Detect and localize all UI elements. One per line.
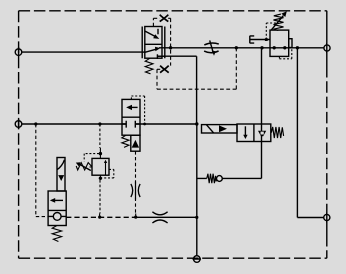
RV2 pilot dotted box (84, 154, 114, 178)
relief valve RV2 spring (76, 163, 91, 170)
compensator CP1 body (145, 27, 162, 59)
pilot line orifice branch (135, 151, 137, 213)
compensator top cell arrow (157, 29, 159, 35)
relief valve RV1 body (270, 30, 289, 56)
junction dots on relief line (235, 46, 238, 49)
valve V2 pilot box (131, 135, 140, 151)
relief valve RV2 adjust arrow (79, 164, 91, 171)
port circle P2 (left main) (15, 121, 22, 128)
orifice X1 (160, 15, 169, 22)
junction dot drain line (195, 216, 198, 219)
valve V4 spring (271, 127, 283, 138)
relief RV1 vent dotted (266, 23, 277, 40)
valve V2 body (middle 2/2) (122, 99, 140, 135)
port circle P (left top) (15, 49, 22, 56)
orifice O1 (131, 184, 140, 197)
valve V4 left cell down arrow (244, 126, 246, 136)
valve V4 right cell seat (261, 124, 263, 142)
valve V3 actuator (bottom-left) (57, 158, 65, 192)
wire drain line bottom (66, 216, 135, 218)
pilot line to relief RV2 top (99, 124, 101, 148)
wire relief line down to valve (261, 48, 263, 124)
valve V2 top cell arrow left (132, 106, 138, 108)
orifice X2 (160, 66, 169, 73)
wire valve down to check line (261, 142, 263, 179)
relief valve RV1 bump (289, 39, 292, 48)
throttle FT1 adjustable (204, 43, 219, 53)
relief RV1 drain dotted (279, 48, 291, 59)
valve V2 spring (122, 135, 129, 147)
wire supply line y52 (22, 51, 142, 53)
valve V4 body (237, 124, 271, 142)
compensator spring (145, 58, 153, 74)
check valve CV1 ball (217, 176, 223, 182)
port circle T (right top) (324, 45, 330, 51)
compensator bottom cell arrow (145, 49, 156, 52)
orifice O2 (152, 212, 167, 223)
relief valve RV1 spring (274, 14, 284, 30)
valve V3 ball cell (53, 213, 61, 221)
valve V3 body (48, 191, 66, 226)
port circle T3 (bottom) (194, 256, 201, 263)
port circle T2 (right lower) (324, 214, 330, 220)
border line through circles (19, 43, 327, 259)
valve V3 top cell arrow (55, 199, 63, 201)
pilot line below RV2 (99, 180, 101, 214)
valve V2 bottom cell blocked (126, 121, 135, 128)
pilot line left dotted (36, 124, 48, 217)
wire relief line y47.8 (159, 47, 324, 49)
valve V3 spring (52, 226, 61, 242)
check valve CV1 spring (207, 174, 216, 184)
wire check valve line (197, 177, 262, 179)
relief valve RV2 body (92, 158, 109, 175)
relief valve RV2 ports (99, 152, 102, 155)
compensator CP1 outer lines (142, 27, 165, 59)
border solid segment top-right (326, 11, 328, 235)
wire center vertical (196, 124, 198, 256)
relief valve RV1 vent port E (250, 36, 270, 44)
relief valve RV1 adjust arrow (271, 16, 283, 30)
pilot dotted from valve V2 top (131, 96, 144, 124)
junction dots main line (34, 122, 37, 125)
wire tank vertical right (297, 48, 323, 218)
valve V4 actuator (horizontal) (202, 125, 238, 133)
wire LS output line (158, 56, 197, 124)
wire main line y124 (22, 123, 197, 125)
compensator pilot dashed path (153, 18, 236, 89)
